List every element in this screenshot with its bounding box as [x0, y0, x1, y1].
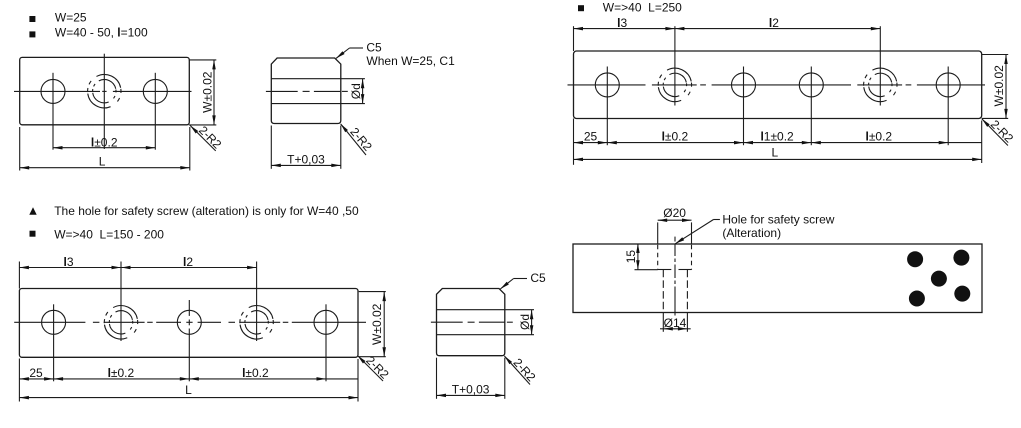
- view3 right edge extension down: [981, 121, 983, 164]
- view6 dot top-left: [907, 251, 923, 267]
- view2 bore line top: [271, 78, 341, 80]
- view2 bore line bottom: [271, 103, 341, 105]
- view3 dimension l3: [574, 28, 675, 30]
- view3 dimension L: [574, 158, 982, 160]
- view6 hole hidden left: [662, 270, 664, 313]
- svg-text:l±0.2: l±0.2: [242, 366, 269, 380]
- view6 dot bottom-left: [909, 291, 925, 307]
- svg-text:T+0,03: T+0,03: [452, 382, 490, 396]
- svg-text:15: 15: [624, 250, 638, 264]
- svg-text:W±0.02: W±0.02: [201, 71, 215, 113]
- view3 counterbored hole 5: [864, 68, 897, 101]
- view4 dimension L: [19, 397, 358, 399]
- note bullet 4: [30, 231, 36, 237]
- view3 dimension l+-0.2 b: [811, 142, 948, 144]
- view2 dimension Od: [362, 79, 364, 104]
- view6 dimension 15: [637, 244, 639, 270]
- view6 hole centerline: [674, 237, 676, 242]
- svg-text:l1±0.2: l1±0.2: [760, 130, 794, 144]
- view3 dimension W+-0.02: [1005, 55, 1007, 119]
- view3 dim line tail: [948, 142, 982, 144]
- view6 hole hidden right: [686, 270, 688, 313]
- view1 dimension l+-0.2: [53, 147, 155, 149]
- view6 counterbore bottom left segment: [658, 269, 672, 271]
- view3 dimension 25: [574, 142, 608, 144]
- svg-text:25: 25: [584, 130, 598, 144]
- note bullet 1: [29, 16, 35, 22]
- view1 center counterbored hole: [88, 74, 121, 107]
- view2 Od extension lines: [341, 78, 365, 80]
- view2 C5 leader: [336, 48, 350, 58]
- view4 counterbored hole 2: [104, 306, 137, 339]
- view1 plate outline: [20, 57, 190, 124]
- view3 2-R2 leader: [982, 119, 1008, 146]
- view3 counterbored hole 2: [658, 68, 691, 101]
- svg-text:L: L: [185, 383, 192, 397]
- view4 dimension l+-0.2 a: [54, 378, 190, 380]
- view1 hole right centerline: [154, 73, 156, 150]
- view3 plate outline: [574, 51, 982, 119]
- view6 counterbore hidden right: [691, 245, 693, 270]
- view3 dimension l+-0.2 a: [607, 142, 743, 144]
- svg-text:The hole for safety screw (alt: The hole for safety screw (alteration) i…: [54, 204, 359, 218]
- view4 dimension l+-0.2 b: [189, 378, 326, 380]
- svg-text:W±0.02: W±0.02: [992, 65, 1006, 107]
- view4 hole 3 (center mark): [177, 310, 201, 334]
- svg-text:Ø20: Ø20: [663, 206, 686, 220]
- view4 hole 1: [42, 310, 66, 334]
- view4 left edge extension up: [18, 262, 20, 289]
- view6 plate outline: [573, 244, 982, 313]
- view5 T extension lines: [436, 358, 438, 399]
- svg-text:Ø14: Ø14: [664, 316, 687, 330]
- view6 counterbore hidden left: [657, 245, 659, 270]
- svg-text:W=25: W=25: [55, 10, 87, 24]
- view1 center hole centerline: [103, 54, 105, 149]
- view4 horizontal centerline: [14, 321, 85, 323]
- svg-text:l±0.2: l±0.2: [662, 130, 689, 144]
- view1 dimension W+-0.02: [213, 60, 215, 125]
- svg-text:When W=25, C1: When W=25, C1: [366, 54, 455, 68]
- view2 T extension lines: [270, 126, 272, 169]
- view1 2-R2 leader: [190, 126, 216, 151]
- view5 dimension T+0,03: [437, 394, 505, 396]
- note bullet 3: [578, 5, 584, 11]
- view2 dimension T+0,03: [271, 164, 341, 166]
- view5 2-R2 leader: [504, 356, 530, 385]
- view6 safety screw leader: [675, 220, 713, 244]
- view5 C5 leader: [500, 279, 513, 290]
- svg-text:l±0.2: l±0.2: [865, 130, 892, 144]
- svg-text:T+0,03: T+0,03: [287, 153, 325, 167]
- view4 dim line tail: [326, 378, 358, 380]
- view1 dimension L: [20, 167, 190, 169]
- view1 hole right: [143, 79, 167, 103]
- view6 counterbore bottom right segment: [679, 269, 692, 271]
- view3 hole 3: [732, 73, 756, 97]
- svg-text:W=>40 L=250: W=>40 L=250: [603, 1, 682, 15]
- view5 centerline: [431, 321, 463, 323]
- view4 hole 5: [314, 310, 338, 334]
- svg-text:l2: l2: [769, 16, 779, 30]
- svg-text:W±0.02: W±0.02: [370, 303, 384, 345]
- svg-text:l2: l2: [183, 255, 193, 269]
- view6 dot bottom-right: [954, 286, 970, 302]
- view5 bore line bottom: [437, 334, 505, 336]
- view4 dimension l3: [19, 267, 121, 269]
- view2 2-R2 leader: [341, 124, 366, 155]
- svg-text:25: 25: [29, 366, 43, 380]
- view4 2-R2 leader: [358, 356, 384, 382]
- view1 horizontal centerline: [14, 90, 100, 92]
- view3 W extension lines: [982, 54, 1009, 56]
- view3 dimension l2: [675, 28, 880, 30]
- svg-text:Ød: Ød: [518, 314, 532, 330]
- view3 dimension l1+-0.2: [744, 142, 812, 144]
- view5 bore line top: [437, 309, 505, 311]
- svg-text:Hole for safety screw: Hole for safety screw: [722, 213, 834, 227]
- view4 dimension W+-0.02: [383, 292, 385, 357]
- view1 hole left centerline: [52, 73, 54, 150]
- view6 15 extension line: [635, 269, 658, 271]
- view4 counterbored hole 4: [240, 306, 273, 339]
- view3 hole 4: [799, 73, 823, 97]
- view4 dimension 25: [19, 378, 53, 380]
- view4 plate outline: [19, 289, 358, 358]
- view5 dimension Od: [531, 310, 533, 335]
- view6 dot middle: [931, 271, 947, 287]
- svg-text:C5: C5: [530, 271, 546, 285]
- svg-text:l3: l3: [617, 16, 627, 30]
- view5 square outline: [437, 289, 505, 356]
- view2 centerline: [266, 90, 298, 92]
- view6 O14 extension lines: [662, 313, 664, 332]
- svg-text:W=40 - 50, l=100: W=40 - 50, l=100: [55, 26, 148, 40]
- svg-text:l3: l3: [63, 255, 73, 269]
- view6 dimension O14: [663, 328, 687, 330]
- view1 W extension lines: [189, 59, 217, 61]
- svg-text:W=>40 L=150 - 200: W=>40 L=150 - 200: [54, 227, 164, 241]
- view6 dot top-right: [953, 250, 969, 266]
- note bullet 2: [29, 31, 35, 37]
- view3 left edge extension down: [573, 119, 575, 165]
- view5 Od extension lines: [505, 309, 534, 311]
- view3 horizontal centerline: [568, 84, 646, 86]
- svg-text:C5: C5: [366, 41, 382, 55]
- view3 hole 6: [936, 73, 960, 97]
- svg-text:l±0.2: l±0.2: [108, 366, 135, 380]
- view4 right edge extension down: [357, 359, 359, 402]
- svg-text:l±0.2: l±0.2: [91, 135, 118, 149]
- view2 square outline: [271, 58, 341, 124]
- svg-text:(Alteration): (Alteration): [722, 226, 781, 240]
- view1 hole left: [41, 79, 65, 103]
- note triangle bullet: [29, 207, 36, 214]
- view6 O20 extension lines: [657, 222, 659, 243]
- view3 left edge extension up: [573, 26, 575, 51]
- view6 dimension O20: [658, 219, 692, 221]
- view4 W extension lines: [359, 291, 386, 293]
- svg-text:Ød: Ød: [349, 83, 363, 99]
- view4 dimension l2: [121, 267, 257, 269]
- view1 L extension lines: [19, 127, 21, 171]
- view4 left edge extension down: [18, 359, 20, 402]
- svg-text:L: L: [99, 155, 106, 169]
- view3 hole 1: [595, 73, 619, 97]
- svg-text:L: L: [772, 145, 779, 159]
